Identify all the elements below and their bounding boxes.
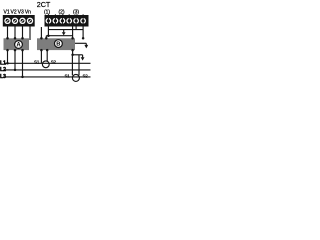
svg-text:L1: L1 — [0, 60, 6, 66]
svg-text:(1): (1) — [44, 9, 50, 15]
svg-text:S1: S1 — [64, 74, 70, 79]
svg-text:L2: L2 — [0, 67, 6, 73]
svg-text:A: A — [16, 43, 21, 49]
svg-text:S2: S2 — [51, 59, 57, 64]
svg-text:L3: L3 — [0, 74, 6, 80]
svg-text:V1: V1 — [4, 9, 10, 15]
svg-text:2CT: 2CT — [37, 0, 51, 9]
svg-text:(3): (3) — [73, 9, 79, 15]
svg-text:V3: V3 — [18, 9, 24, 15]
svg-text:(2): (2) — [58, 9, 64, 15]
svg-text:B: B — [56, 42, 60, 48]
svg-text:S1: S1 — [34, 59, 40, 64]
svg-text:V2: V2 — [11, 9, 17, 15]
svg-text:S2: S2 — [82, 74, 88, 79]
svg-text:Vn: Vn — [25, 9, 31, 15]
